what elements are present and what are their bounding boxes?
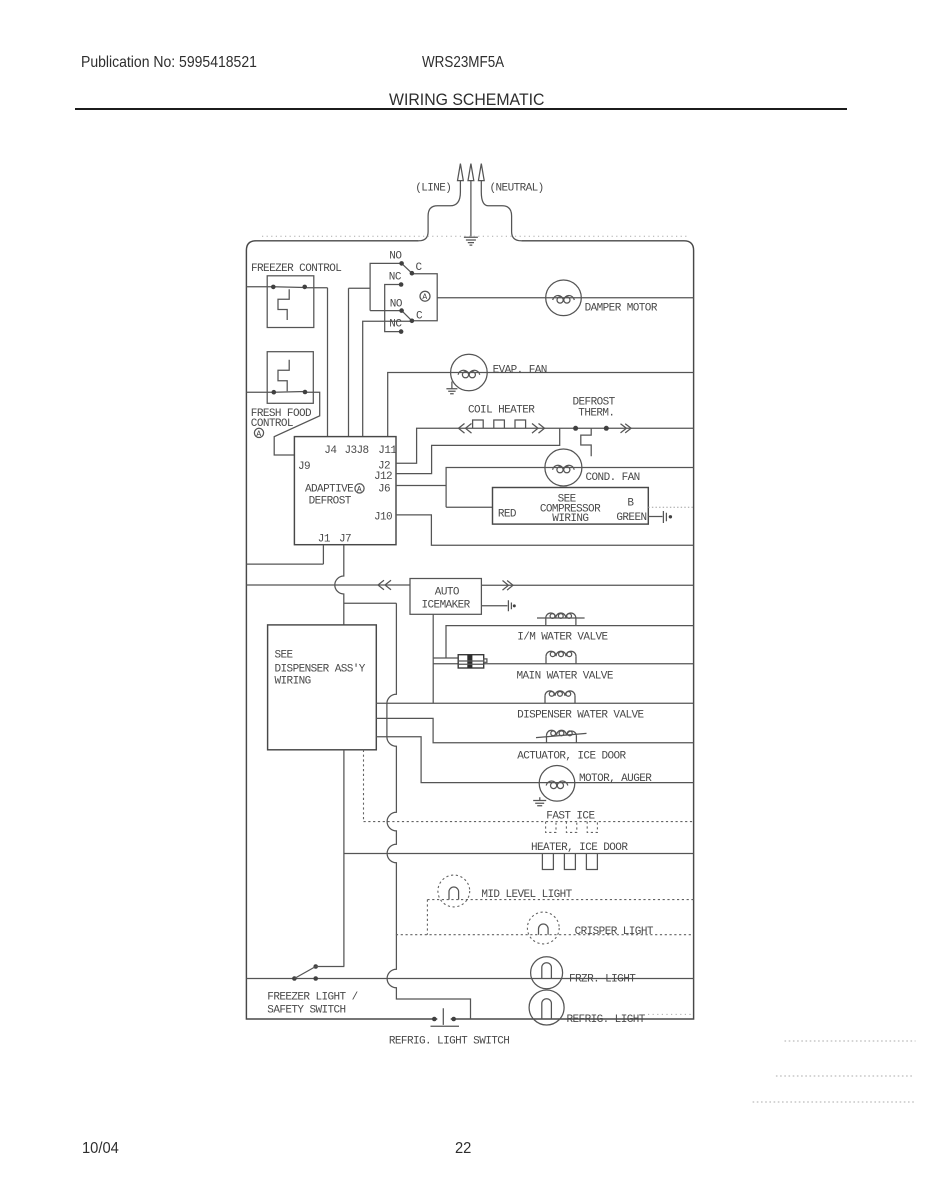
svg-text:REFRIG. LIGHT: REFRIG. LIGHT: [567, 1014, 646, 1026]
svg-text:J1: J1: [318, 534, 331, 546]
svg-text:MAIN WATER VALVE: MAIN WATER VALVE: [517, 671, 614, 683]
svg-text:ICEMAKER: ICEMAKER: [422, 600, 471, 612]
svg-text:NC: NC: [389, 272, 402, 284]
svg-text:COND. FAN: COND. FAN: [586, 472, 640, 484]
svg-text:(LINE): (LINE): [415, 183, 451, 195]
svg-text:FREEZER CONTROL: FREEZER CONTROL: [251, 263, 341, 275]
svg-text:A: A: [256, 430, 261, 439]
svg-text:A: A: [422, 293, 427, 302]
svg-text:DEFROST: DEFROST: [309, 496, 352, 508]
svg-text:WIRING: WIRING: [275, 676, 311, 688]
svg-text:DISPENSER ASS'Y: DISPENSER ASS'Y: [275, 664, 366, 676]
svg-text:MID LEVEL LIGHT: MID LEVEL LIGHT: [481, 889, 572, 901]
svg-text:NO: NO: [390, 299, 403, 311]
svg-text:J8: J8: [357, 445, 369, 457]
svg-text:RED: RED: [498, 509, 517, 521]
svg-text:FAST ICE: FAST ICE: [546, 811, 595, 823]
svg-text:A: A: [357, 485, 362, 494]
svg-text:THERM.: THERM.: [578, 408, 614, 420]
svg-text:SEE: SEE: [275, 650, 294, 662]
svg-text:HEATER, ICE DOOR: HEATER, ICE DOOR: [531, 842, 628, 854]
svg-text:J6: J6: [378, 484, 390, 496]
svg-text:C: C: [416, 262, 423, 274]
svg-text:DISPENSER WATER VALVE: DISPENSER WATER VALVE: [517, 710, 644, 722]
svg-text:(NEUTRAL): (NEUTRAL): [490, 183, 544, 195]
svg-text:WIRING: WIRING: [552, 513, 588, 525]
svg-text:B: B: [627, 498, 634, 510]
svg-text:NO: NO: [389, 251, 402, 263]
svg-text:DAMPER MOTOR: DAMPER MOTOR: [585, 303, 658, 315]
svg-text:GREEN: GREEN: [616, 512, 646, 524]
svg-text:AUTO: AUTO: [435, 587, 460, 599]
svg-text:MOTOR, AUGER: MOTOR, AUGER: [579, 773, 652, 785]
svg-text:C: C: [416, 311, 423, 323]
svg-text:J12: J12: [374, 471, 392, 483]
svg-text:J4: J4: [324, 445, 337, 457]
svg-text:CONTROL: CONTROL: [251, 418, 293, 430]
svg-text:ACTUATOR, ICE DOOR: ACTUATOR, ICE DOOR: [517, 751, 626, 763]
svg-text:FREEZER LIGHT /: FREEZER LIGHT /: [267, 992, 357, 1004]
svg-text:ADAPTIVE: ADAPTIVE: [305, 484, 354, 496]
svg-text:REFRIG. LIGHT SWITCH: REFRIG. LIGHT SWITCH: [389, 1036, 509, 1048]
svg-text:SAFETY SWITCH: SAFETY SWITCH: [267, 1005, 345, 1017]
svg-text:I/M WATER VALVE: I/M WATER VALVE: [517, 632, 608, 644]
svg-text:J7: J7: [339, 534, 351, 546]
svg-text:CRISPER LIGHT: CRISPER LIGHT: [575, 926, 654, 938]
svg-text:J9: J9: [298, 461, 310, 473]
svg-text:J3: J3: [345, 445, 357, 457]
svg-text:FRZR. LIGHT: FRZR. LIGHT: [569, 974, 636, 986]
svg-text:COIL HEATER: COIL HEATER: [468, 405, 535, 417]
svg-text:EVAP. FAN: EVAP. FAN: [493, 364, 547, 376]
svg-text:J11: J11: [378, 445, 397, 457]
svg-text:NC: NC: [389, 319, 402, 331]
svg-text:J10: J10: [374, 512, 392, 524]
